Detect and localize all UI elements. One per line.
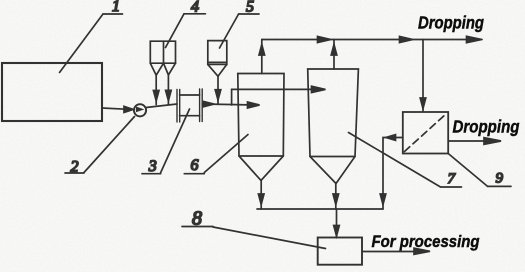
wire box 8 output bbox=[362, 248, 430, 254]
wire pipe drum to cyclone 6 bbox=[202, 101, 259, 108]
wire cyclone 6 riser bbox=[259, 40, 265, 74]
text Dropping top bbox=[418, 13, 484, 33]
box 8 bbox=[318, 238, 362, 265]
label 1 bbox=[60, 0, 123, 72]
pump 2 bbox=[134, 104, 146, 116]
wire branch riser to cyclone 7 bbox=[232, 86, 326, 105]
label 4 bbox=[166, 0, 206, 47]
label 2 bbox=[65, 117, 135, 176]
wire cyclone 6 drop bbox=[258, 181, 264, 210]
svg-text:For processing: For processing bbox=[372, 232, 481, 251]
wire cyclone 7 riser bbox=[331, 40, 337, 70]
svg-text:9: 9 bbox=[496, 170, 504, 186]
hopper 5 bbox=[208, 41, 227, 104]
label 3 bbox=[142, 109, 190, 175]
wire cyclone 7 drop bbox=[333, 184, 339, 210]
wire collector line bbox=[257, 208, 383, 210]
svg-text:1: 1 bbox=[112, 0, 120, 15]
drum 3 bbox=[177, 89, 202, 122]
tank 1 bbox=[2, 63, 102, 121]
wire feed to box 8 bbox=[334, 209, 340, 237]
hopper 4 bbox=[150, 41, 175, 104]
cyclone 6 bbox=[238, 74, 284, 181]
separator 9 bbox=[403, 112, 448, 154]
label 5 bbox=[220, 0, 260, 48]
label 7 bbox=[349, 133, 462, 188]
wire separator 9 output bbox=[448, 138, 501, 145]
text Dropping right bbox=[453, 116, 520, 136]
svg-text:3: 3 bbox=[148, 158, 157, 175]
label 8 bbox=[182, 208, 326, 249]
wire pipe tank to pump bbox=[102, 106, 133, 112]
svg-text:Dropping: Dropping bbox=[418, 13, 484, 33]
label 9 bbox=[448, 154, 511, 187]
label 6 bbox=[184, 135, 248, 175]
wire pipe pump to drum bbox=[146, 104, 177, 108]
text For processing bbox=[372, 232, 481, 251]
svg-text:Dropping: Dropping bbox=[453, 116, 520, 136]
wire top header line bbox=[262, 36, 482, 42]
wire drop to separator 9 bbox=[420, 40, 426, 112]
wire separator 9 to collector bbox=[380, 135, 403, 209]
svg-text:6: 6 bbox=[191, 157, 199, 174]
cyclone 7 bbox=[308, 69, 359, 184]
